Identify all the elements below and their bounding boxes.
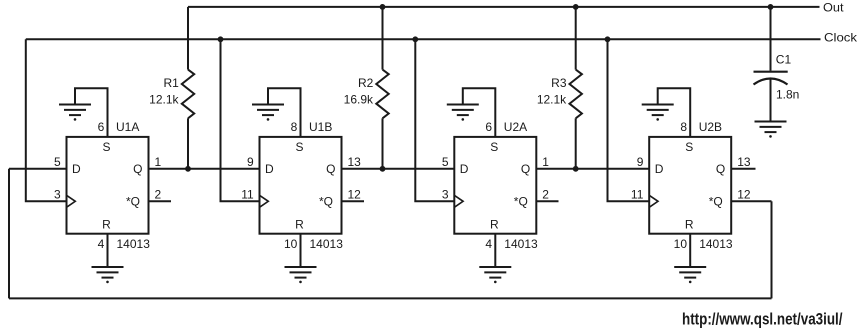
- svg-text:6: 6: [98, 120, 105, 134]
- wire: U2A *Q (pin 2) stub: [536, 200, 558, 202]
- junction: R3 top on Out rail: [573, 4, 579, 10]
- wire: clock drop to U2A pin 3: [415, 39, 454, 201]
- capacitor C1 1.8n: [754, 7, 788, 122]
- resistor R2 16.9k: [376, 7, 388, 169]
- wire: Out rail (top horizontal net): [188, 6, 820, 8]
- svg-text:R2: R2: [358, 76, 374, 90]
- svg-text:13: 13: [348, 155, 362, 169]
- svg-text:10: 10: [284, 237, 298, 251]
- svg-text:S: S: [295, 140, 303, 154]
- wire: U1A Q (pin 1) to U1B D (pin 9): [149, 168, 260, 170]
- wire: Clock rail (second horizontal net): [26, 38, 821, 40]
- ground at U2B R pin: [674, 267, 706, 283]
- svg-text:R1: R1: [163, 76, 179, 90]
- svg-text:D: D: [460, 162, 469, 176]
- svg-text:D: D: [265, 162, 274, 176]
- svg-text:*Q: *Q: [319, 194, 333, 208]
- svg-text:12: 12: [348, 188, 362, 202]
- svg-text:*Q: *Q: [126, 194, 140, 208]
- svg-text:U1A: U1A: [116, 120, 139, 134]
- wire: U2B *Q pin 12 stub to feedback: [731, 200, 771, 202]
- junction: U2A clock drop on Clock rail: [412, 36, 418, 42]
- svg-text:Q: Q: [133, 162, 142, 176]
- svg-text:14013: 14013: [117, 237, 151, 251]
- svg-text:U1B: U1B: [309, 120, 332, 134]
- svg-text:12: 12: [737, 188, 751, 202]
- ground at U2B S pin: [642, 105, 674, 121]
- U2B pin 8 stem (S) wired to ground: [658, 88, 691, 137]
- svg-text:http://www.qsl.net/va3iul/: http://www.qsl.net/va3iul/: [682, 310, 843, 328]
- svg-text:5: 5: [442, 155, 449, 169]
- svg-text:16.9k: 16.9k: [344, 92, 374, 106]
- resistor R3 12.1k: [570, 7, 582, 169]
- svg-text:Clock: Clock: [824, 31, 858, 45]
- wire: feedback into U1A D pin 5: [9, 168, 67, 170]
- svg-text:10: 10: [674, 237, 688, 251]
- svg-text:R: R: [102, 217, 111, 231]
- wire: clock drop to U1B pin 11: [221, 39, 260, 201]
- svg-text:11: 11: [241, 188, 254, 202]
- U2A pin 4 stem (R) to ground: [494, 234, 496, 267]
- svg-text:8: 8: [291, 120, 298, 134]
- ground at U1A R pin: [92, 267, 124, 283]
- ground at U1A S pin: [59, 105, 91, 121]
- junction: R1 bottom on U1A Q net: [185, 166, 191, 172]
- ground at U1B R pin: [285, 267, 317, 283]
- ground at U2A R pin: [479, 267, 511, 283]
- svg-text:C1: C1: [776, 52, 792, 66]
- svg-text:U2B: U2B: [699, 120, 722, 134]
- svg-text:5: 5: [54, 155, 61, 169]
- svg-text:S: S: [685, 140, 693, 154]
- wire: Clock rail left drop to U1A clock pin 3: [26, 39, 67, 201]
- flip-flop U2B (14013 D-type) body: [649, 137, 731, 234]
- ground below C1: [755, 122, 787, 138]
- flip-flop U1B (14013 D-type) body: [260, 137, 342, 234]
- wire: feedback left vertical: [8, 169, 10, 299]
- svg-text:14013: 14013: [504, 237, 538, 251]
- svg-text:Out: Out: [823, 0, 844, 14]
- U1B pin 8 stem (S) wired to ground: [268, 88, 301, 137]
- U1A pin 4 stem (R) to ground: [107, 234, 109, 267]
- U2A pin 6 stem (S) wired to ground: [463, 88, 496, 137]
- wire: bottom feedback rail: [9, 297, 772, 299]
- junction: R2 bottom on U1B Q net: [380, 166, 386, 172]
- wire: U1B *Q (pin 12) stub: [342, 200, 365, 202]
- junction: C1 top on Out rail: [768, 4, 774, 10]
- svg-text:2: 2: [155, 188, 162, 202]
- junction: U2B clock drop on Clock rail: [605, 36, 611, 42]
- wire: feedback right vertical from U2B *Q: [771, 201, 773, 298]
- svg-text:Q: Q: [521, 162, 530, 176]
- svg-text:9: 9: [637, 155, 644, 169]
- svg-text:1: 1: [155, 155, 162, 169]
- svg-text:R: R: [685, 217, 694, 231]
- wire: clock drop to U2B pin 11: [608, 39, 650, 201]
- svg-text:*Q: *Q: [709, 194, 723, 208]
- svg-text:4: 4: [485, 237, 492, 251]
- svg-text:1: 1: [542, 155, 549, 169]
- svg-text:R3: R3: [551, 76, 567, 90]
- U2B pin 10 stem (R) to ground: [689, 234, 691, 267]
- svg-text:R: R: [295, 217, 304, 231]
- svg-text:1.8n: 1.8n: [776, 88, 799, 102]
- wire: U1B Q (pin 13) to U2A D (pin 5): [342, 168, 455, 170]
- svg-text:14013: 14013: [699, 237, 733, 251]
- svg-text:U2A: U2A: [504, 120, 527, 134]
- svg-text:14013: 14013: [310, 237, 344, 251]
- junction: R2 top on Out rail: [380, 4, 386, 10]
- svg-text:2: 2: [542, 188, 549, 202]
- svg-text:D: D: [655, 162, 664, 176]
- ground at U1B S pin: [252, 105, 284, 121]
- U1B pin 10 stem (R) to ground: [300, 234, 302, 267]
- svg-text:12.1k: 12.1k: [149, 92, 179, 106]
- svg-text:8: 8: [680, 120, 687, 134]
- svg-text:3: 3: [442, 188, 449, 202]
- svg-text:S: S: [490, 140, 498, 154]
- svg-text:3: 3: [54, 188, 61, 202]
- U1A pin 6 stem (S) wired to ground: [75, 88, 108, 137]
- wire: U2B Q (pin 13) stub: [731, 168, 755, 170]
- junction: R3 bottom on U2A Q net: [573, 166, 579, 172]
- svg-text:S: S: [102, 140, 110, 154]
- svg-text:Q: Q: [326, 162, 335, 176]
- svg-text:6: 6: [485, 120, 492, 134]
- svg-text:12.1k: 12.1k: [537, 92, 567, 106]
- svg-text:13: 13: [737, 155, 751, 169]
- wire: U1A *Q (pin 2) stub: [149, 200, 172, 202]
- flip-flop U1A (14013 D-type) body: [67, 137, 149, 234]
- flip-flop U2A (14013 D-type) body: [454, 137, 536, 234]
- junction: U1B clock drop on Clock rail: [218, 36, 224, 42]
- ground at U2A S pin: [447, 105, 479, 121]
- svg-text:*Q: *Q: [514, 194, 528, 208]
- svg-text:R: R: [490, 217, 499, 231]
- svg-text:4: 4: [98, 237, 105, 251]
- resistor R1 12.1k: [182, 7, 194, 169]
- svg-text:D: D: [72, 162, 81, 176]
- svg-text:Q: Q: [716, 162, 725, 176]
- wire: U2A Q (pin 1) to U2B D (pin 9): [536, 168, 649, 170]
- svg-text:11: 11: [631, 188, 644, 202]
- svg-text:9: 9: [247, 155, 254, 169]
